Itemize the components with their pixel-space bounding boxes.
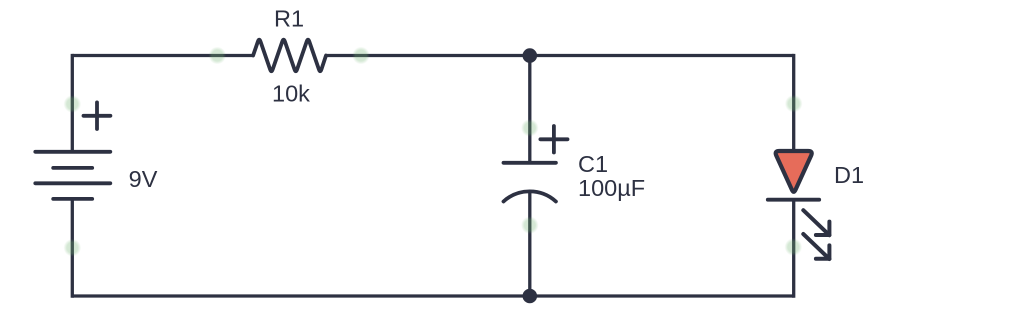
wire: top rail left segment (battery + to resistor) — [72, 54, 253, 57]
resistor R1 — [253, 40, 326, 72]
terminal dot (LED cathode) — [785, 238, 803, 256]
battery V1 (9V) — [35, 152, 110, 199]
terminal dot (capacitor +) — [521, 119, 539, 137]
terminal dot (capacitor -) — [521, 216, 539, 234]
junction node (bottom, C1 tap) — [523, 289, 538, 304]
svg-text:100µF: 100µF — [578, 175, 645, 201]
terminal dot (resistor left) — [209, 47, 227, 65]
LED light arrow 1 — [803, 210, 829, 235]
battery plus sign — [84, 102, 111, 129]
svg-text:R1: R1 — [274, 6, 304, 32]
junction node (top, C1 tap) — [523, 48, 538, 63]
wire: bottom rail — [72, 294, 793, 297]
LED light arrow 2 — [803, 234, 829, 259]
capacitor C1 top plate — [504, 161, 556, 165]
svg-text:10k: 10k — [272, 81, 310, 107]
terminal dot (resistor right) — [352, 47, 370, 65]
capacitor C1 curved plate — [504, 191, 556, 201]
wire: top rail right segment (resistor to LED branch) — [326, 54, 794, 57]
wire: capacitor branch lower (C1 curved plate to bottom junction) — [528, 193, 531, 297]
wire: left rail upper (top rail down to battery +) — [71, 54, 74, 152]
svg-text:D1: D1 — [834, 162, 864, 188]
wire: LED branch upper (top rail to D1 anode) — [792, 54, 795, 151]
svg-text:C1: C1 — [578, 151, 608, 177]
LED D1 cathode bar — [768, 198, 819, 202]
terminal dot (battery +) — [64, 95, 82, 113]
wire: LED branch lower (D1 cathode to bottom rail) — [792, 200, 795, 298]
LED D1 triangle (anode) — [776, 151, 812, 192]
svg-text:9V: 9V — [129, 166, 158, 192]
terminal dot (battery -) — [64, 239, 82, 257]
wire: capacitor branch upper (top junction to C1 plate) — [528, 56, 531, 163]
capacitor plus sign — [540, 126, 567, 153]
terminal dot (LED anode) — [785, 95, 803, 113]
wire: left rail lower (battery - down to bottom rail) — [71, 199, 74, 298]
